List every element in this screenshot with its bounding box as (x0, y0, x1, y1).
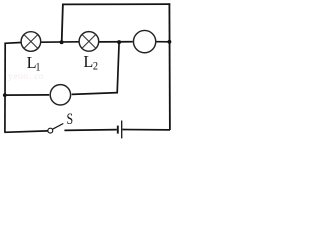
svg-text:S: S (66, 111, 73, 128)
switch S: pivot circle (48, 128, 53, 133)
wire top-left vertical drop (62, 4, 63, 43)
wire L2 to circle3 through node (99, 41, 133, 43)
lamp L1 (21, 32, 41, 52)
wire switch to battery (64, 129, 116, 132)
svg-text:L: L (83, 52, 93, 71)
switch S: lever (53, 124, 64, 130)
wire middle row left segment (4, 94, 49, 96)
label L1 (27, 53, 41, 74)
node B (junction dot between L2 and meter) (117, 40, 121, 44)
lamp L2 (79, 32, 99, 52)
wire battery to right vertical (122, 129, 170, 131)
battery negative plate (short thick) (117, 126, 119, 134)
wire left vertical (4, 43, 6, 133)
node D (junction dot on left vertical) (3, 93, 7, 97)
wire top horizontal (62, 3, 170, 5)
battery positive plate (long thin) (121, 121, 123, 139)
wire middle row right segment (72, 93, 118, 95)
label L2 (83, 52, 98, 73)
meter circle M1 (right, on main row) (133, 30, 155, 52)
meter circle M2 (middle row) (50, 85, 70, 105)
node C (junction dot at right vertical) (167, 40, 171, 44)
wire L1 to L2 through node (41, 41, 78, 43)
svg-text:1: 1 (35, 61, 40, 74)
wire bottom left (4, 131, 48, 132)
node A (junction dot between L1 and L2) (60, 40, 64, 44)
wire middle vertical (117, 42, 119, 93)
wire right vertical (168, 3, 171, 130)
wire circle3 to right vertical (156, 41, 169, 43)
wire main row: left corner to L1 (4, 42, 20, 45)
svg-text:2: 2 (93, 60, 98, 73)
